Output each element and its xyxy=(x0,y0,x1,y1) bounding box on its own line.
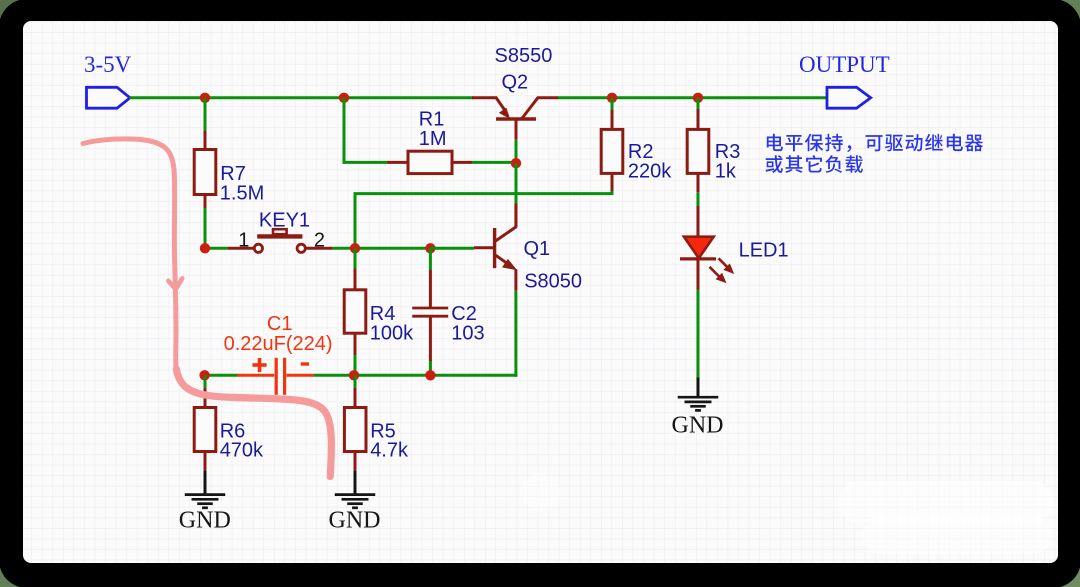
wire bottom rail right segment xyxy=(430,374,517,377)
junction bottom rail / R4 R5 xyxy=(349,370,359,380)
svg-text:GND: GND xyxy=(329,508,381,534)
wire R7 top stub xyxy=(204,98,207,131)
wire C2 top stub xyxy=(429,248,432,270)
svg-text:1M: 1M xyxy=(419,128,447,150)
junction bottom rail / C2 xyxy=(425,370,435,380)
junction bottom rail left xyxy=(199,370,209,380)
transistor Q1 S8050 (NPN) xyxy=(474,204,517,291)
junction key row left xyxy=(200,243,210,253)
ground GND (LED branch) xyxy=(678,378,719,411)
junction at R1 branch xyxy=(339,93,349,103)
wire R7 bottom to key row xyxy=(204,208,207,248)
resistor R2 xyxy=(601,110,623,192)
annotation arrowhead (pink chevron) xyxy=(168,278,182,289)
wire Q2 base to node xyxy=(515,140,518,164)
junction Q2 base / R1 xyxy=(511,158,521,168)
wire 3-5V rail left xyxy=(130,96,474,99)
svg-text:0.22uF(224): 0.22uF(224) xyxy=(224,333,333,355)
wire LED cathode down xyxy=(697,290,700,379)
junction at R7 top xyxy=(200,93,210,103)
svg-text:S8050: S8050 xyxy=(524,270,582,292)
ground GND (R6 branch) xyxy=(185,471,226,508)
LED1 light arrow 2 xyxy=(710,267,720,277)
svg-text:4.7k: 4.7k xyxy=(370,440,409,462)
svg-text:470k: 470k xyxy=(220,440,264,462)
net flag 3-5V xyxy=(87,87,131,108)
svg-text:2: 2 xyxy=(314,229,325,251)
hand-drawn annotation stroke (pink) xyxy=(83,139,176,371)
svg-text:KEY1: KEY1 xyxy=(259,210,310,232)
net flag OUTPUT xyxy=(827,87,871,108)
capacitor C1 (polarized) xyxy=(237,358,314,395)
label C1 polarity + xyxy=(252,363,266,367)
wire R1 branch horizontal xyxy=(343,161,389,164)
svg-text:1k: 1k xyxy=(715,160,737,182)
svg-text:C1: C1 xyxy=(267,313,293,335)
wire R3 top stub xyxy=(697,98,700,109)
junction at R3 top xyxy=(693,93,703,103)
wire R4 bottom stub xyxy=(354,355,357,375)
wire node down to Q1 collector xyxy=(515,163,518,203)
annotation text line 1+2 (Chinese) xyxy=(766,134,984,173)
LED1 light arrow 1 xyxy=(719,258,729,268)
wire C2 bottom stub xyxy=(429,361,432,375)
svg-text:LED1: LED1 xyxy=(739,239,789,261)
wire R2 bottom elbow to left xyxy=(355,191,612,248)
resistor R1 xyxy=(388,151,473,173)
svg-text:103: 103 xyxy=(451,322,484,344)
svg-text:GND: GND xyxy=(672,413,724,439)
capacitor C2 xyxy=(412,270,448,361)
wire 3-5V rail right of Q2 xyxy=(558,96,827,99)
wire R4 top stub xyxy=(354,248,357,268)
resistor R6 xyxy=(194,388,216,472)
svg-text:100k: 100k xyxy=(370,322,414,344)
svg-text:OUTPUT: OUTPUT xyxy=(799,52,890,77)
wire key row to Q1 base xyxy=(430,247,474,250)
wire R3 to LED anode xyxy=(697,192,700,206)
junction at R2 top xyxy=(607,93,617,103)
wire C1 right to rail xyxy=(314,374,355,377)
wire rail C1-to-C2 xyxy=(355,374,430,377)
svg-text:1.5M: 1.5M xyxy=(220,183,264,205)
svg-text:GND: GND xyxy=(179,508,231,534)
diode LED1 xyxy=(680,206,734,290)
junction key row / C2 xyxy=(425,243,435,253)
svg-text:S8550: S8550 xyxy=(495,45,553,67)
wire key row from R7 node xyxy=(205,247,228,250)
wire R1 branch vertical xyxy=(343,98,346,163)
svg-text:Q1: Q1 xyxy=(524,238,551,260)
pushbutton KEY1 xyxy=(228,229,332,252)
svg-text:Q2: Q2 xyxy=(502,72,529,94)
wire R5 top stub xyxy=(354,375,357,388)
wire bottom rail left segment xyxy=(205,374,238,377)
wire Q1 emitter down xyxy=(514,291,517,377)
wire R2 top stub xyxy=(611,98,614,110)
resistor R7 xyxy=(194,131,216,208)
junction key row / R4 xyxy=(350,243,360,253)
transistor Q2 S8550 (PNP) xyxy=(472,97,558,140)
svg-text:220k: 220k xyxy=(628,160,672,182)
ground GND (R5 branch) xyxy=(335,471,376,508)
resistor R3 xyxy=(687,109,709,192)
resistor R5 xyxy=(344,388,366,472)
svg-text:3-5V: 3-5V xyxy=(84,52,132,77)
resistor R4 xyxy=(344,269,366,356)
wire R6 top stub xyxy=(204,375,207,388)
wire R1 right to node xyxy=(472,161,516,164)
label C1 polarity - xyxy=(301,362,309,365)
svg-text:1: 1 xyxy=(238,230,249,252)
wire key row to R4 node xyxy=(332,247,430,250)
